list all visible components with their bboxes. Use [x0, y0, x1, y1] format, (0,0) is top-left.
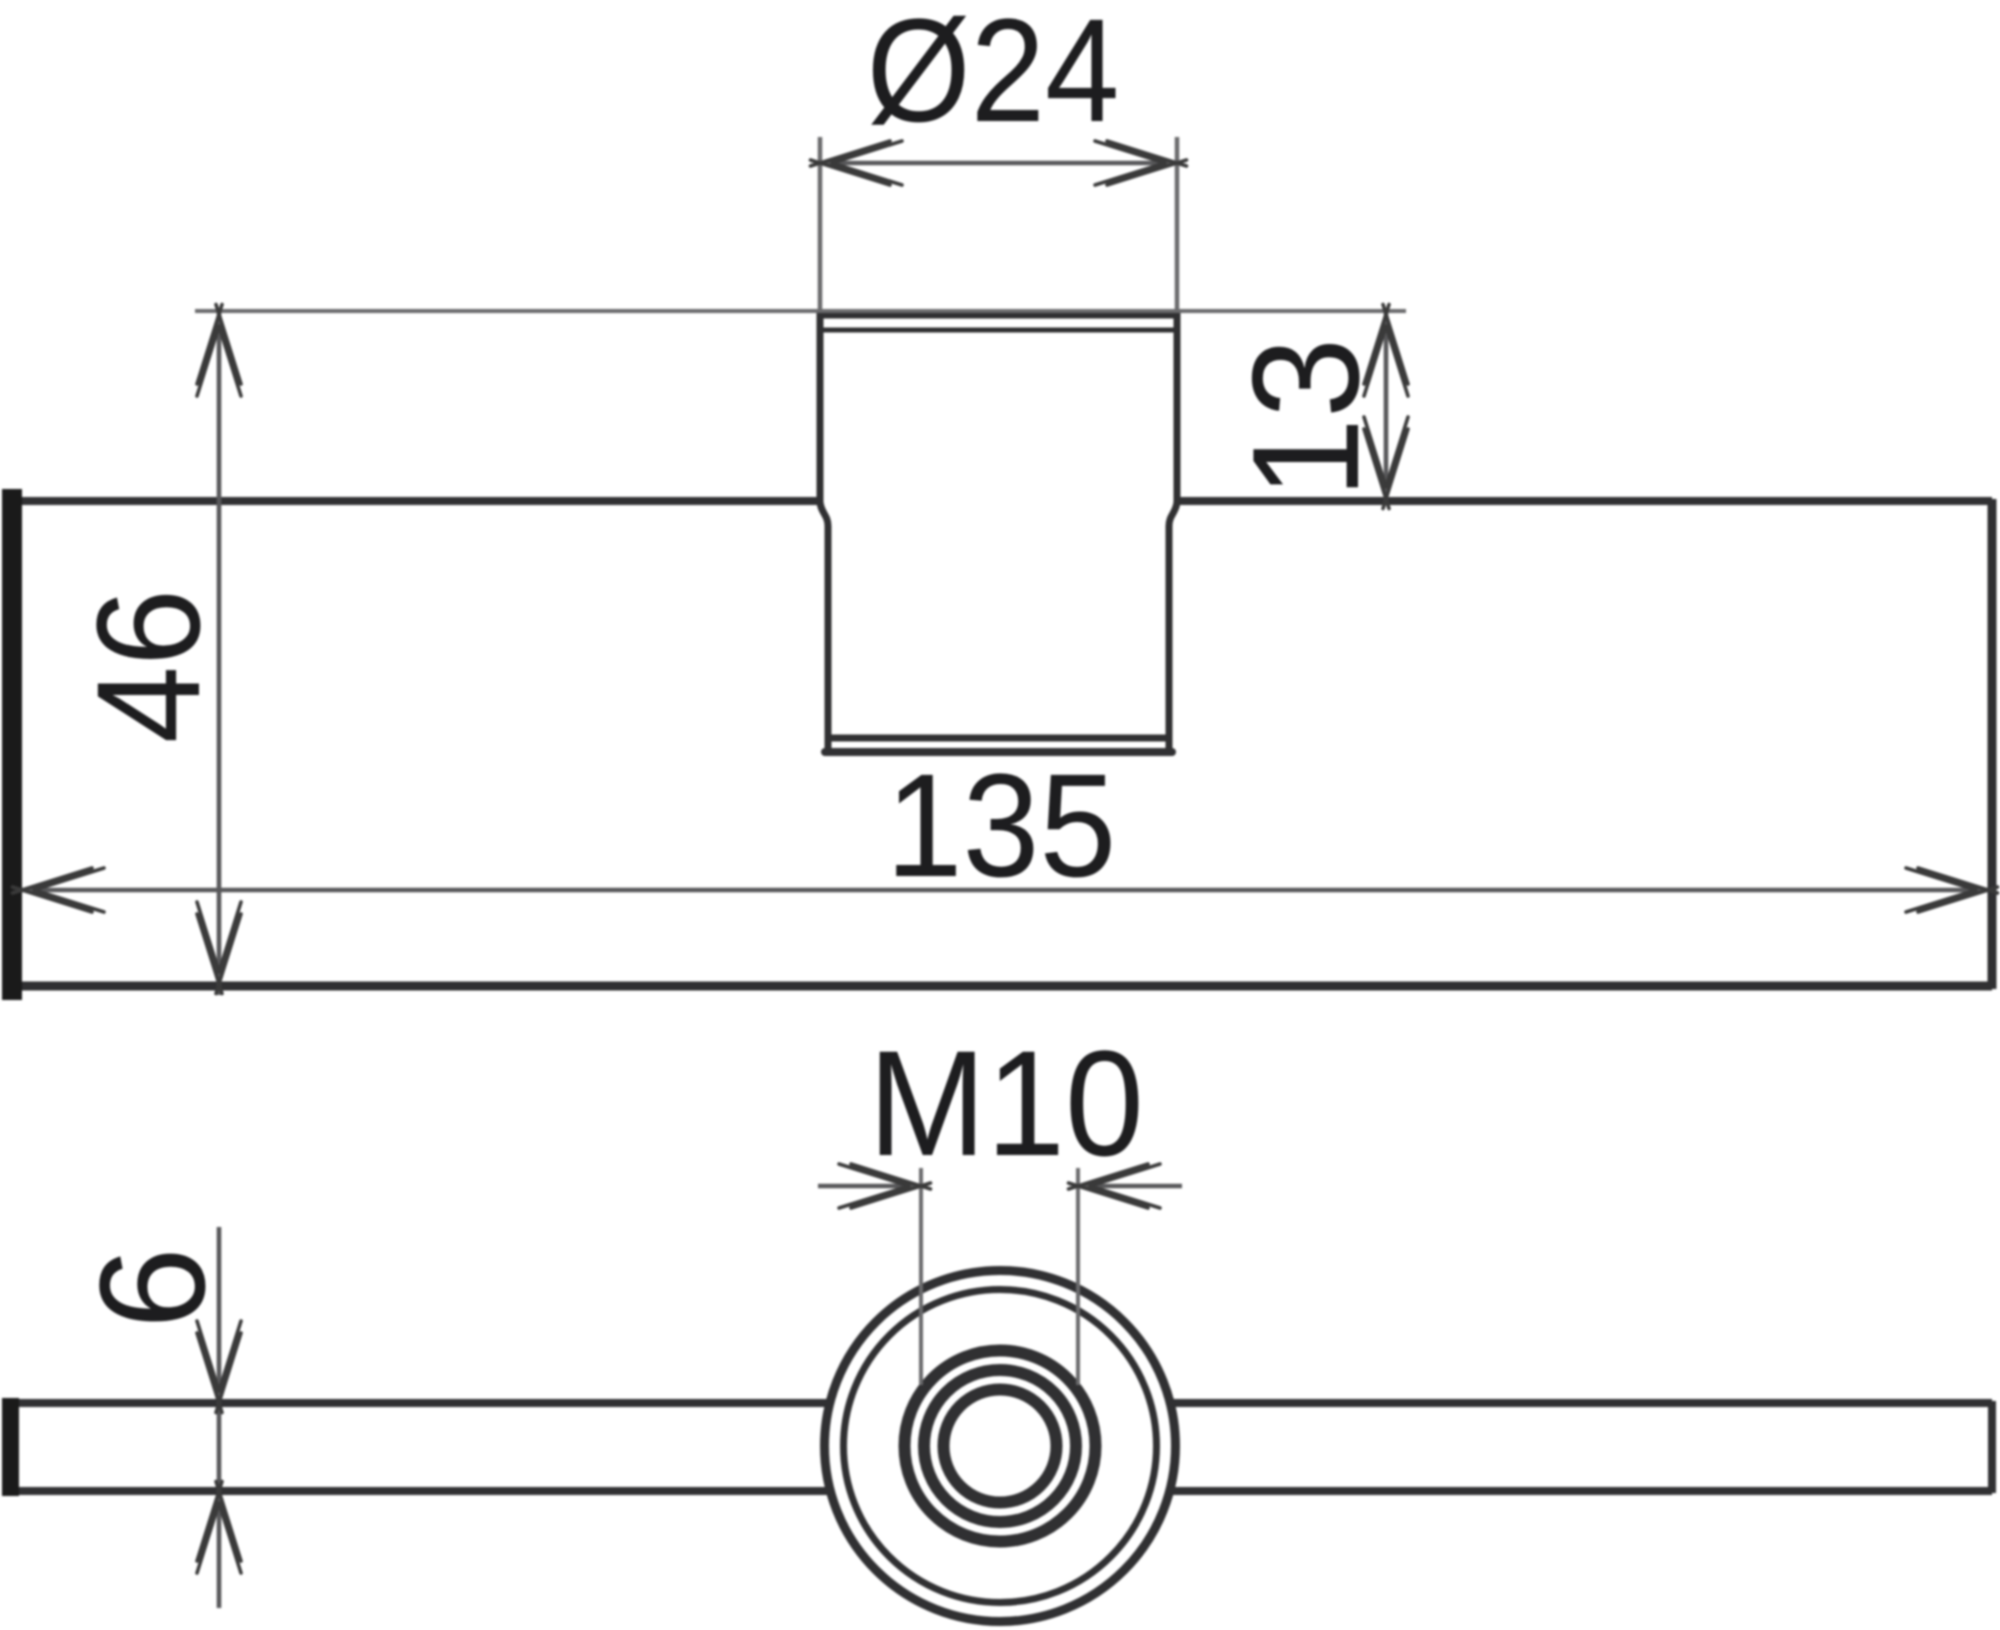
dim 13: top arrow	[1364, 305, 1408, 397]
dim M10: left extension line	[919, 1168, 923, 1385]
plate top view: bottom edge	[8, 982, 1992, 991]
plate side view: bottom edge (right of flange)	[1169, 1487, 1992, 1495]
plate side view: right edge	[1988, 1401, 1996, 1493]
plate top view: top edge (right of boss)	[1175, 497, 1992, 505]
svg-text:46: 46	[67, 589, 230, 744]
dim O24: left arrow	[811, 141, 903, 185]
sleeve boss: right side	[1169, 311, 1177, 750]
dim M10: left dimension line	[818, 1184, 921, 1189]
thread circle inner (hole)	[944, 1390, 1057, 1503]
plate top view: thick left end cap	[2, 489, 22, 1000]
dim M10: right dimension line	[1078, 1184, 1182, 1189]
thread circle outer	[905, 1351, 1096, 1542]
sleeve boss: bottom edge line 1 (chamfer)	[828, 735, 1169, 742]
sleeve flange: outer circle	[825, 1271, 1176, 1622]
dim M10: left arrow (points right)	[839, 1164, 931, 1208]
svg-text:Ø24: Ø24	[867, 0, 1120, 152]
sleeve flange: inner circle	[844, 1290, 1157, 1603]
dim 13: label (rotated)	[1222, 338, 1391, 499]
sleeve boss: top edge line 1	[820, 312, 1177, 319]
dim 13: bottom arrow	[1364, 417, 1408, 509]
svg-text:135: 135	[886, 744, 1117, 908]
svg-text:13: 13	[1222, 338, 1391, 499]
dim 6: top arrow (points down at plate top)	[197, 1321, 241, 1413]
plate top view: right edge	[1988, 499, 1997, 989]
dim O24: label	[867, 0, 1120, 152]
sleeve boss: left side	[820, 311, 828, 750]
dim 135: dimension line	[22, 888, 1988, 893]
plate side view: thick left end cap	[2, 1398, 19, 1496]
svg-text:M10: M10	[868, 1019, 1144, 1187]
sleeve boss: top edge line 2 (chamfer)	[823, 328, 1174, 333]
dim O24: right arrow	[1095, 141, 1187, 185]
plate top view: top edge (left of boss)	[8, 497, 822, 505]
dim M10: right arrow (points left)	[1069, 1164, 1161, 1208]
extension line at sleeve top	[195, 309, 1406, 313]
plate side view: bottom edge (left of flange)	[8, 1487, 831, 1495]
dim O24: dimension line	[820, 161, 1177, 166]
plate side view: top edge (right of flange)	[1169, 1399, 1992, 1407]
dim M10: label	[868, 1019, 1144, 1187]
dim 6: label (rotated)	[70, 1247, 237, 1329]
dim 46: bottom arrow	[197, 902, 241, 994]
dim 6: bottom arrow (points up at plate bottom)	[197, 1482, 241, 1574]
dim O24: right extension line above boss	[1175, 137, 1180, 311]
sleeve boss: bottom edge line 2	[825, 748, 1172, 756]
thread circle middle	[924, 1370, 1076, 1522]
dim 46: label (rotated)	[67, 589, 230, 744]
dim 135: right arrow	[1906, 868, 1998, 912]
dim 135: left arrow	[13, 868, 105, 912]
dim 13: dimension line	[1384, 311, 1389, 501]
dim O24: left extension line above boss	[818, 137, 823, 311]
dim 135: label	[886, 744, 1117, 908]
dim M10: right extension line	[1076, 1168, 1080, 1385]
dim 46: dimension line	[217, 311, 222, 995]
dim 46: top arrow	[197, 305, 241, 397]
plate side view: top edge (left of flange)	[8, 1399, 831, 1407]
svg-text:6: 6	[70, 1247, 237, 1329]
dim 6: dimension line	[217, 1227, 222, 1608]
